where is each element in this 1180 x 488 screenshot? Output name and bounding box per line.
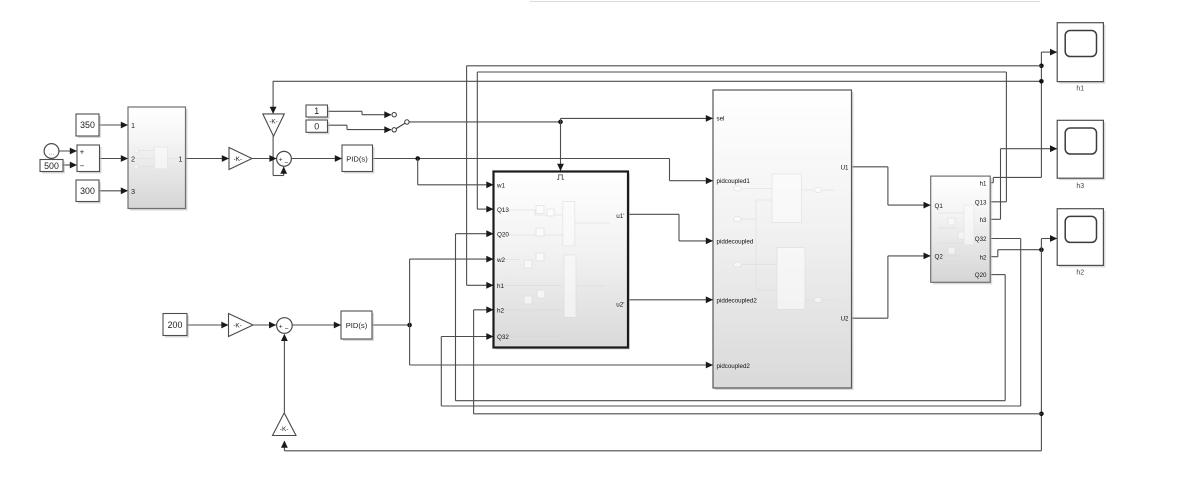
wire PID controller 2 output (372, 324, 409, 326)
arrowhead into sum S2 bottom (281, 334, 288, 341)
wire manual switch output to sel and trigger (409, 121, 560, 123)
svg-text:Q13: Q13 (497, 207, 509, 214)
svg-text:+: + (279, 323, 283, 330)
arrowhead into PID1 (335, 155, 342, 162)
arrowhead into switch upper (384, 111, 391, 118)
svg-text:h1: h1 (980, 180, 987, 187)
PID controller 1 (344, 147, 375, 174)
svg-text:−: − (285, 326, 289, 333)
svg-text:1: 1 (314, 106, 319, 116)
arrowhead into trigger port (557, 164, 564, 171)
arrowhead into gain K2 (221, 322, 228, 329)
arrowhead source to sum A (70, 148, 77, 155)
wire PID controller 1 output with branch (372, 158, 669, 160)
wire subsystem WaterTank output to gain K1 (186, 158, 229, 160)
wire PID2 branch down to port pidcoupled2 (409, 325, 411, 365)
svg-text:piddecoupled2: piddecoupled2 (717, 297, 758, 304)
constant 350 (78, 116, 101, 138)
wire decoupler u1 to port piddecoupled (629, 213, 680, 215)
arrowhead 350 to port 1 (121, 122, 128, 129)
svg-text:Q20: Q20 (975, 272, 987, 279)
arrowhead into sum S1 bottom (280, 167, 287, 174)
svg-text:-K-: -K- (280, 426, 289, 433)
sum S1 circle (277, 151, 292, 166)
arrowhead into port Q32 (486, 333, 493, 340)
constant one (308, 107, 330, 119)
constant 200 (165, 316, 189, 338)
svg-text:u1': u1' (616, 213, 624, 220)
svg-text:1: 1 (131, 121, 135, 130)
arrowhead into plant Q2 (924, 253, 931, 260)
svg-text:sel: sel (717, 116, 725, 123)
arrowhead 500 to sum A (70, 162, 77, 169)
gain K2 triangle (229, 314, 254, 337)
svg-text:−: − (80, 162, 85, 171)
wire constant 500 to sum A minus input (63, 164, 76, 166)
svg-text:500: 500 (44, 161, 59, 171)
arrowhead sum A to port 2 (121, 155, 128, 162)
svg-text:1: 1 (178, 154, 182, 163)
gain K3 down triangle (263, 114, 285, 136)
arrowhead into gain K1 (222, 155, 229, 162)
arrowhead into port Q13 (486, 206, 493, 213)
svg-text:Q2: Q2 (935, 254, 944, 261)
arrowhead into gain K4 bottom (281, 441, 288, 448)
arrowhead into port h1 (486, 282, 493, 289)
arrowhead into scope h2 (1050, 235, 1057, 242)
svg-text:0: 0 (314, 122, 319, 132)
svg-text:350: 350 (80, 120, 95, 130)
svg-text:u2': u2' (616, 301, 624, 308)
sum block A (79, 147, 102, 174)
svg-text:3: 3 (131, 187, 135, 196)
arrowhead into port pidcoupled2 (706, 362, 713, 369)
svg-text:Q1: Q1 (935, 203, 944, 210)
svg-text:w2: w2 (496, 257, 506, 264)
arrowhead into port piddecoupled (706, 238, 713, 245)
constant 500 (42, 162, 65, 174)
source circle block (44, 144, 59, 159)
wire bottom feedback to gain K4 (284, 450, 1041, 452)
wire plant h2 to scope h2 and feedback (990, 256, 998, 258)
svg-text:h2: h2 (980, 254, 987, 261)
svg-text:U2: U2 (841, 316, 849, 323)
arrowhead into port w1 (486, 181, 493, 188)
scope h2 (1059, 211, 1105, 268)
scope h1 (1059, 25, 1105, 84)
sum S2 circle (277, 318, 293, 334)
wire faint top border (530, 1, 1040, 3)
wire h2 feedback to port h2 (474, 413, 1042, 415)
subsystem plant (933, 178, 993, 284)
gain K4 up triangle (273, 413, 297, 436)
wire PID2 branch up to port w2 (409, 259, 411, 325)
junction dot h2 feedback bottom (1039, 412, 1044, 417)
wire sum S1 to PID controller 1 (292, 158, 342, 160)
arrowhead into port sel (706, 115, 713, 122)
wire constant zero to manual switch lower input (328, 124, 348, 126)
wire plant Q32 feedback to port Q32 (990, 238, 1020, 240)
wire gain K1 to sum S1 (252, 158, 276, 160)
svg-text:300: 300 (80, 186, 95, 196)
arrowhead into port pidcoupled1 (706, 177, 713, 184)
PID controller 2 (343, 313, 374, 341)
wire gain K2 to sum S2 (253, 324, 276, 326)
junction dot h1 feedback lower (1039, 79, 1044, 84)
wire controller U1 to plant Q1 (852, 166, 888, 168)
svg-text:Q20: Q20 (497, 231, 509, 238)
svg-text:h1: h1 (1076, 86, 1084, 93)
gain K1 triangle (229, 148, 252, 170)
wire source circle to sum A plus input (59, 150, 76, 152)
svg-text:pidcoupled1: pidcoupled1 (717, 178, 751, 185)
wire plant h1 to scope h1 (990, 182, 993, 184)
wire gain K3 output detour into sum S1 minus (272, 136, 274, 175)
svg-text:h2: h2 (1076, 270, 1084, 277)
svg-text:Q32: Q32 (975, 236, 987, 243)
svg-text:pidcoupled2: pidcoupled2 (717, 363, 751, 370)
arrowhead into sum S2 (269, 322, 276, 329)
arrowhead into port piddecoupled2 (706, 296, 713, 303)
svg-text:-K-: -K- (234, 156, 243, 163)
wire gain K4 output to sum S2 minus (283, 335, 285, 413)
junction dot PID2 output (407, 323, 412, 328)
wire plant Q13 feedback to port Q13 (990, 201, 1006, 203)
arrowhead into port Q20 (486, 230, 493, 237)
svg-text:−: − (284, 159, 288, 166)
svg-text:Q32: Q32 (497, 334, 509, 341)
svg-text:h1: h1 (497, 283, 505, 290)
wire sum A output to subsystem WaterTank port 2 (100, 158, 128, 160)
arrowhead 300 to port 3 (121, 187, 128, 194)
svg-text:w1: w1 (496, 183, 506, 190)
wire decoupler u2 to port piddecoupled2 (629, 299, 713, 301)
svg-text:+: + (80, 148, 85, 157)
svg-text:+: + (279, 157, 283, 164)
subsystem controller (715, 92, 854, 390)
svg-text:...: ... (49, 150, 55, 157)
constant zero (308, 122, 330, 134)
svg-text:2: 2 (131, 155, 135, 164)
svg-text:piddecoupled: piddecoupled (717, 238, 754, 245)
arrowhead into plant Q1 (924, 202, 931, 209)
wire feedback h1 row y81 to gain K3 top (273, 80, 1042, 82)
svg-text:PID(s): PID(s) (346, 154, 368, 163)
arrowhead into port w2 (486, 256, 493, 263)
wire PID1 branch to port pidcoupled1 (669, 159, 671, 181)
constant 300 (78, 182, 101, 204)
wire plant h3 to scope h3 (990, 218, 1000, 220)
trigger symbol on decoupler (557, 175, 564, 180)
wire constant one to manual switch upper input (328, 110, 363, 112)
arrowhead into scope h3 (1050, 145, 1057, 152)
arrowhead into scope h1 (1050, 49, 1057, 56)
junction dot PID1 output (415, 156, 420, 161)
arrowhead into switch lower (384, 126, 391, 133)
wire plant Q20 feedback to port Q20 (990, 274, 1005, 276)
svg-text:PID(s): PID(s) (346, 321, 368, 330)
svg-text:U1: U1 (841, 164, 849, 171)
wire constant 200 to gain K2 (188, 324, 229, 326)
wire switch branch down to trigger port (560, 122, 562, 171)
wire sum S2 to PID controller 2 (292, 324, 340, 326)
svg-text:h3: h3 (1076, 183, 1084, 190)
wire h2 feedback down (1040, 250, 1042, 451)
wire constant 350 to subsystem WaterTank port 1 (99, 124, 127, 126)
svg-text:-K-: -K- (269, 119, 278, 126)
arrowhead into sum S1 (269, 155, 276, 162)
svg-text:Q13: Q13 (975, 199, 987, 206)
svg-text:h3: h3 (980, 217, 987, 224)
arrowhead into PID2 (334, 322, 341, 329)
junction dot h2 scope branch (1039, 247, 1044, 252)
svg-text:-K-: -K- (233, 323, 242, 330)
svg-text:200: 200 (168, 320, 183, 330)
scope h3 (1059, 122, 1105, 180)
arrowhead into port h2 (486, 306, 493, 313)
subsystem decoupler (496, 174, 631, 350)
manual switch (396, 123, 405, 128)
arrowhead into gain K3 top (270, 107, 277, 114)
subsystem WaterTank sources (130, 109, 188, 211)
junction dot h1 feedback upper (1039, 64, 1044, 69)
wire controller U2 to plant Q2 (852, 317, 888, 319)
junction dot switch output (558, 120, 563, 125)
wire constant 300 to subsystem WaterTank port 3 (99, 190, 127, 192)
wire h1 feedback to port h1 (467, 65, 1042, 67)
wire PID1 branch down to port w1 (417, 159, 419, 185)
svg-text:h2: h2 (497, 308, 505, 315)
